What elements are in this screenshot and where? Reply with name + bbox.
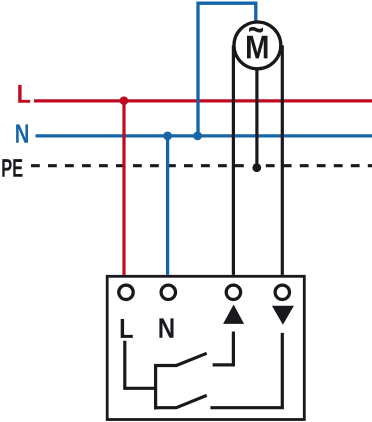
switch S2 fixed contact lead to down arrow [210,333,282,408]
wire switch common bus [154,364,157,409]
wire motor centre lead down to PE rail [255,60,258,168]
label L (net name) [18,85,30,103]
switch S1 (up) common stub and blade [154,353,207,365]
arrow down symbol (lower) [272,306,294,325]
wire motor right lead down to box terminal [281,45,284,275]
label N (net name) [16,124,28,142]
wire red drop from L rail to switch box [122,101,125,275]
label L terminal inside box [121,319,133,338]
terminal 2 (N input) [161,285,175,299]
label PE (net name) [2,159,22,177]
junction dot on L rail [120,96,129,105]
motor M1 tilde (AC symbol) [249,27,263,33]
wire blue riser from N rail over the top to motor [198,3,256,136]
junction dot on PE rail [252,163,261,172]
motor M1 letter M [247,36,268,59]
wire L rail (red phase line) [34,99,372,102]
switch S2 (down) common stub and blade [154,395,207,407]
motor M1 body (circle) [234,22,281,69]
wire blue drop from N rail to switch box [166,136,169,275]
label N terminal inside box [159,318,173,337]
wire PE rail (dashed protective earth line, left of junction) [31,164,247,167]
junction dot on N rail (drop to box) [163,132,172,141]
wire PE rail (dashed protective earth line, right of junction) [266,164,372,167]
terminal 1 (L input) [119,285,133,299]
junction dot on N rail (riser to motor) [193,132,202,141]
switch S1 fixed contact lead to up arrow [213,332,234,365]
arrow up symbol (raise) [223,305,244,324]
terminal 3 (up output) [226,285,240,299]
terminal 4 (down output) [275,285,289,299]
wire L feed inside box to switch common bus [125,341,156,389]
wire N rail (blue neutral line) [36,134,372,137]
wire motor left lead down to box terminal [232,45,235,275]
switch unit box outline [107,276,304,419]
